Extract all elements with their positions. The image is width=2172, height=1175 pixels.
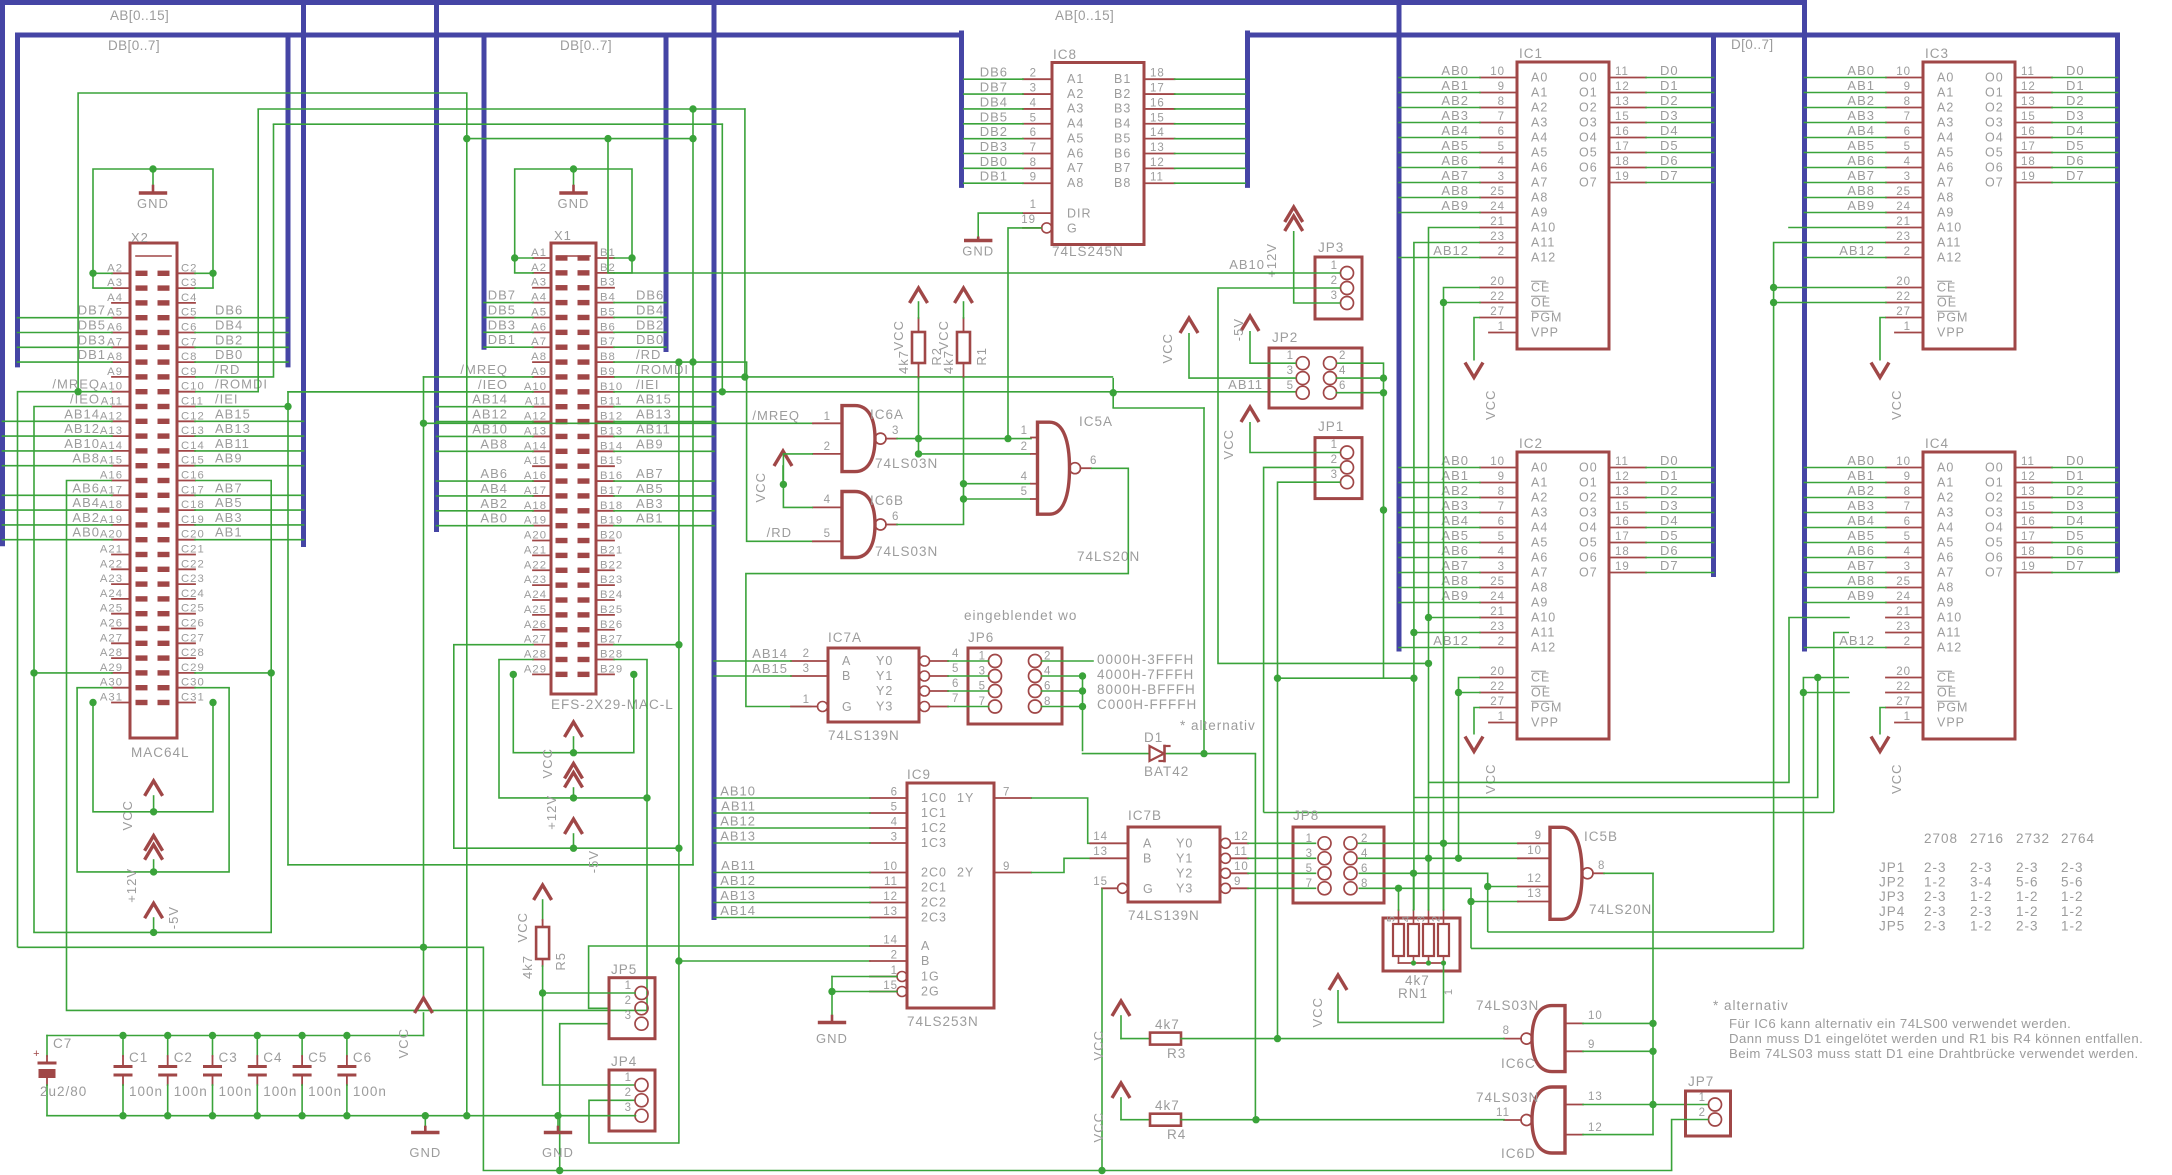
junction Y2-RN1 [1410, 870, 1417, 877]
svg-text:X2: X2 [131, 230, 149, 245]
svg-text:OE: OE [1531, 686, 1551, 700]
svg-text:3: 3 [803, 663, 810, 675]
svg-text:C4: C4 [263, 1050, 282, 1065]
RN1 top stems [1398, 888, 1400, 910]
svg-text:24: 24 [1490, 201, 1505, 213]
svg-text:DB2: DB2 [215, 332, 243, 347]
svg-text:A: A [921, 939, 930, 953]
svg-text:3: 3 [1331, 290, 1338, 302]
svg-text:23: 23 [1490, 621, 1505, 633]
wire H124 /RD-X2 [274, 123, 723, 125]
svg-text:1C0: 1C0 [921, 791, 947, 805]
wire X2 C16 vertical [195, 481, 271, 933]
svg-text:IC2: IC2 [1519, 436, 1543, 451]
svg-text:O2: O2 [1985, 491, 2004, 505]
svg-text:25: 25 [1896, 576, 1911, 588]
junction V693 RD-X1 [689, 358, 696, 365]
svg-text:D0: D0 [1660, 63, 1679, 78]
svg-text:2-3: 2-3 [2016, 918, 2039, 933]
svg-text:AB4: AB4 [1441, 123, 1469, 138]
svg-text:AB2: AB2 [1847, 93, 1875, 108]
svg-text:C25: C25 [181, 603, 205, 615]
svg-text:PGM: PGM [1937, 701, 1968, 715]
svg-text:7: 7 [1030, 142, 1037, 154]
svg-text:8: 8 [1904, 486, 1911, 498]
svg-text:23: 23 [1896, 231, 1911, 243]
svg-text:AB7: AB7 [1847, 558, 1875, 573]
resistor R2 [912, 332, 925, 363]
wire IC1 PGM to VCC [1474, 318, 1480, 361]
svg-text:17: 17 [2021, 531, 2036, 543]
IC4 AB wires from bus [1805, 467, 1887, 469]
svg-text:VPP: VPP [1531, 326, 1559, 340]
svg-text:C23: C23 [181, 573, 205, 585]
wires IC7A Y to JP6 [948, 660, 989, 662]
wire IC9 A from JP5.2 [589, 946, 870, 1008]
wire VCC to IC6A.2/IC6B.4 [782, 466, 784, 484]
svg-text:AB13: AB13 [720, 888, 756, 903]
svg-text:1: 1 [625, 1072, 632, 1084]
svg-text:JP2: JP2 [1272, 330, 1298, 345]
svg-text:A12: A12 [1937, 251, 1962, 265]
svg-text:B7: B7 [1114, 161, 1131, 175]
wire X1 /IEI (B10) = AB11 [614, 391, 1296, 393]
svg-text:Beim 74LS03 muss statt D1 eine: Beim 74LS03 muss statt D1 eine Drahtbrüc… [1729, 1046, 2139, 1061]
svg-text:15: 15 [1615, 111, 1630, 123]
svg-text:1: 1 [1331, 439, 1338, 451]
junction X2 +12V [150, 868, 157, 875]
wire Y2 link to IC3 [1488, 931, 1774, 933]
junction X1 B29 [630, 671, 637, 678]
svg-text:4: 4 [891, 817, 898, 829]
nand gate IC6A 74LS03N [842, 406, 875, 472]
wire Y0 row to IC5B.9 [1359, 842, 1519, 844]
IC9 body [907, 783, 994, 1008]
svg-text:D5: D5 [2066, 138, 2085, 153]
svg-text:15: 15 [1615, 501, 1630, 513]
svg-text:A20: A20 [524, 530, 547, 542]
junction JP5.3 rail [556, 1167, 563, 1174]
svg-text:O5: O5 [1985, 536, 2004, 550]
JP5 body [609, 978, 655, 1039]
svg-text:AB3: AB3 [636, 496, 664, 511]
wire IC9 1G 2G to GND [832, 976, 897, 978]
svg-text:D6: D6 [2066, 543, 2085, 558]
junction X1 VCC [570, 749, 577, 756]
svg-text:AB3: AB3 [1441, 498, 1469, 513]
svg-text:VPP: VPP [1531, 716, 1559, 730]
svg-text:A: A [1143, 837, 1152, 851]
IC2 AB wires from bus [1399, 467, 1480, 469]
svg-text:DB4: DB4 [215, 318, 243, 333]
svg-text:C000H-FFFFH: C000H-FFFFH [1097, 697, 1197, 712]
svg-text:/IEI: /IEI [215, 392, 239, 407]
ground GND above X1 [573, 169, 575, 186]
svg-text:2-3: 2-3 [2061, 860, 2084, 875]
svg-text:2-3: 2-3 [1924, 904, 1947, 919]
power VCC at JP1 [1241, 407, 1259, 422]
wire X1 /ROMDI (B9) [614, 376, 1113, 378]
capacitors C1-C6 100n [122, 1036, 124, 1057]
svg-text:B3: B3 [1114, 102, 1131, 116]
junction A10-IC2 [1425, 614, 1432, 621]
wire IC2 CE/OE select [1459, 678, 1481, 859]
svg-text:A11: A11 [1937, 626, 1961, 640]
svg-text:8: 8 [1498, 96, 1505, 108]
svg-text:A6: A6 [1937, 161, 1954, 175]
svg-text:D3: D3 [2066, 108, 2085, 123]
wire H93 [78, 93, 467, 1116]
power VCC R4 [1112, 1083, 1130, 1098]
svg-text:16: 16 [1150, 97, 1165, 109]
junction X1 GND top [570, 165, 577, 172]
svg-text:AB5: AB5 [1847, 138, 1875, 153]
wire X2 /IEI (C11) to X1 /IEO [195, 392, 533, 407]
svg-text:O5: O5 [1579, 536, 1598, 550]
svg-text:5: 5 [952, 663, 959, 675]
svg-text:1-2: 1-2 [2061, 918, 2084, 933]
connector X2 body [130, 243, 177, 738]
wire X2 -5V loop [34, 931, 271, 933]
wire X2 +12V loop [77, 688, 229, 872]
svg-text:2: 2 [1904, 636, 1911, 648]
svg-text:1: 1 [1030, 199, 1037, 211]
power VCC R3 [1112, 1001, 1130, 1016]
svg-text:11: 11 [2021, 66, 2035, 78]
svg-text:B23: B23 [600, 574, 623, 586]
svg-text:A3: A3 [1531, 116, 1548, 130]
junction X1 B27 chain [675, 641, 682, 648]
svg-text:PGM: PGM [1531, 311, 1562, 325]
junction Y3-RN1 [1395, 885, 1402, 892]
wire AB14 to IC7A [714, 660, 791, 662]
svg-text:D1: D1 [1144, 730, 1163, 745]
IC8 B-side D wires [1175, 78, 1245, 80]
svg-text:C1: C1 [129, 1050, 148, 1065]
svg-text:IC6B: IC6B [870, 493, 904, 508]
svg-text:2-3: 2-3 [1970, 860, 1993, 875]
svg-text:A27: A27 [524, 634, 547, 646]
power VCC at JP2 [1180, 318, 1198, 333]
svg-text:A10: A10 [1531, 221, 1556, 235]
wire X1 +12V loop [499, 660, 647, 798]
svg-text:5: 5 [1904, 531, 1911, 543]
svg-text:9: 9 [1498, 81, 1505, 93]
wire IC3 PGM to VCC [1880, 318, 1886, 361]
svg-text:A12: A12 [1531, 641, 1556, 655]
junction Y0-RN1 [1440, 840, 1447, 847]
svg-text:13: 13 [2021, 486, 2036, 498]
IC1 AB wires from bus [1399, 77, 1480, 79]
svg-text:1: 1 [1021, 425, 1028, 437]
svg-text:18: 18 [1150, 68, 1165, 80]
bus AB vertical (IC1/IC2) [1397, 3, 1402, 650]
svg-text:4: 4 [1339, 365, 1346, 377]
svg-text:A5: A5 [1937, 146, 1954, 160]
RN1 body [1383, 918, 1460, 971]
svg-text:AB6: AB6 [1847, 543, 1875, 558]
svg-text:AB1: AB1 [215, 525, 243, 540]
svg-text:24: 24 [1896, 201, 1911, 213]
svg-text:2-3: 2-3 [1924, 860, 1947, 875]
svg-text:O3: O3 [1985, 506, 2004, 520]
svg-text:AB8: AB8 [1441, 183, 1469, 198]
svg-text:9: 9 [1030, 172, 1037, 184]
power VCC below IC2 [1465, 737, 1483, 752]
wire IC1 CE/OE select [1444, 288, 1481, 911]
svg-text:IC7A: IC7A [828, 630, 862, 645]
svg-text:AB6: AB6 [72, 480, 100, 495]
svg-text:CE: CE [1531, 671, 1550, 685]
svg-text:2u2/80: 2u2/80 [40, 1084, 87, 1099]
svg-text:5: 5 [824, 528, 831, 540]
svg-text:11: 11 [2021, 456, 2035, 468]
svg-text:A9: A9 [1531, 206, 1548, 220]
svg-text:4k7: 4k7 [941, 350, 956, 374]
junction V722 IEI-X1 [719, 388, 726, 395]
svg-text:AB14: AB14 [472, 392, 508, 407]
svg-text:3: 3 [892, 425, 899, 437]
svg-text:20: 20 [1896, 276, 1911, 288]
svg-text:A23: A23 [524, 574, 547, 586]
svg-text:74LS03N: 74LS03N [1476, 998, 1539, 1013]
svg-text:1C2: 1C2 [921, 821, 947, 835]
wire X1 GND loop [515, 169, 632, 273]
svg-text:2: 2 [803, 648, 810, 660]
svg-text:X1: X1 [554, 228, 572, 243]
svg-text:O4: O4 [1579, 521, 1598, 535]
svg-text:16: 16 [1615, 516, 1630, 528]
svg-text:3: 3 [625, 1102, 632, 1114]
svg-text:19: 19 [1615, 561, 1630, 573]
svg-text:O0: O0 [1579, 461, 1598, 475]
junction H109 V693 [689, 105, 696, 112]
svg-text:DB7: DB7 [488, 288, 516, 303]
svg-text:23: 23 [1490, 231, 1505, 243]
svg-text:DB[0..7]: DB[0..7] [108, 38, 160, 53]
svg-text:AB0: AB0 [1441, 63, 1469, 78]
IC7A pin stubs [791, 660, 828, 662]
svg-text:1: 1 [891, 965, 898, 977]
svg-text:O4: O4 [1579, 131, 1598, 145]
junction VCC-IC6 [780, 481, 787, 488]
svg-text:C5: C5 [308, 1050, 327, 1065]
RN1 bottom dots [1411, 960, 1416, 965]
svg-text:22: 22 [1490, 291, 1505, 303]
svg-text:D3: D3 [1660, 498, 1679, 513]
svg-text:Y0: Y0 [1176, 836, 1193, 850]
svg-text:A29: A29 [524, 663, 547, 675]
svg-text:20: 20 [1490, 276, 1505, 288]
svg-text:A8: A8 [1937, 191, 1954, 205]
wire X1 VCC loop [513, 674, 634, 752]
svg-text:MAC64L: MAC64L [131, 745, 190, 760]
svg-text:/ROMDI: /ROMDI [215, 377, 268, 392]
svg-text:9: 9 [1535, 830, 1542, 842]
svg-text:10: 10 [1490, 66, 1505, 78]
svg-text:27: 27 [1490, 696, 1505, 708]
svg-text:6: 6 [1090, 455, 1097, 467]
svg-text:3-4: 3-4 [1970, 875, 1993, 890]
svg-text:A7: A7 [1531, 566, 1548, 580]
svg-text:AB9: AB9 [1441, 588, 1469, 603]
svg-text:2: 2 [1331, 275, 1338, 287]
junction IC3 OE [1770, 299, 1777, 306]
svg-text:A5: A5 [1531, 146, 1548, 160]
svg-text:100n: 100n [353, 1084, 387, 1099]
junction X1 +12V [570, 794, 577, 801]
svg-text:O3: O3 [1579, 506, 1598, 520]
svg-text:A10: A10 [1937, 611, 1962, 625]
svg-text:JP4: JP4 [611, 1054, 637, 1069]
svg-text:2: 2 [625, 1087, 632, 1099]
JP5 pin circles [635, 987, 648, 1000]
svg-text:DB6: DB6 [636, 288, 664, 303]
junction Y1-IC2sel [1455, 855, 1462, 862]
svg-text:A8: A8 [531, 351, 547, 363]
svg-text:74LS245N: 74LS245N [1052, 244, 1124, 259]
svg-text:8000H-BFFFH: 8000H-BFFFH [1097, 682, 1196, 697]
svg-text:A1: A1 [1937, 86, 1954, 100]
svg-text:O2: O2 [1985, 101, 2004, 115]
bus DB vertical (X2 C-side) [286, 35, 291, 365]
svg-text:B27: B27 [600, 634, 623, 646]
IC9 address input wires [714, 797, 870, 799]
svg-text:A15: A15 [524, 455, 547, 467]
IC3 AB wires from bus [1805, 77, 1887, 79]
svg-text:DB0: DB0 [636, 332, 664, 347]
junction IC5A pin4 [960, 480, 967, 487]
junction IC5A pin5 [960, 495, 967, 502]
svg-text:2C1: 2C1 [921, 881, 947, 895]
connector X1 pins A1-A29 / B1-B29 [533, 257, 551, 259]
wire rail 947 [18, 947, 484, 1170]
wire IC2 PGM to VCC [1474, 708, 1480, 735]
resistor R3 [1120, 1016, 1122, 1039]
svg-text:AB7: AB7 [215, 480, 243, 495]
svg-text:2: 2 [1904, 246, 1911, 258]
svg-text:A3: A3 [1067, 102, 1084, 116]
svg-text:2: 2 [1498, 246, 1505, 258]
junction IC1 OE [1440, 299, 1447, 306]
power VCC at IC6 inputs [774, 451, 792, 466]
ground GND above X2 [152, 169, 154, 186]
svg-text:AB3: AB3 [1441, 108, 1469, 123]
svg-text:A26: A26 [524, 619, 547, 631]
wire X2 VCC loop [93, 703, 213, 812]
svg-text:2: 2 [891, 950, 898, 962]
wire X2 /ROMDI (C10) [195, 109, 258, 392]
svg-text:A11: A11 [1531, 236, 1555, 250]
junction IC6D in13 [1649, 1101, 1656, 1108]
svg-text:JP7: JP7 [1688, 1074, 1714, 1089]
junction R4-D1 net [1252, 1116, 1259, 1123]
svg-text:2-3: 2-3 [1924, 918, 1947, 933]
svg-text:Dann muss D1 eingelötet werden: Dann muss D1 eingelötet werden und R1 bi… [1729, 1031, 2143, 1046]
junction IC4 OE [1800, 689, 1807, 696]
wire IC1 A11 channel [1414, 243, 1480, 911]
wire IC5B out [1604, 872, 1653, 874]
wire VCC to RN1 pin1 [1338, 990, 1444, 1022]
IC7B pin stubs [1091, 842, 1129, 844]
svg-text:AB2: AB2 [480, 496, 508, 511]
svg-text:24: 24 [1896, 591, 1911, 603]
svg-text:A25: A25 [100, 603, 123, 615]
svg-text:O6: O6 [1579, 161, 1598, 175]
svg-text:16: 16 [2021, 516, 2036, 528]
svg-text:VCC: VCC [120, 800, 135, 830]
svg-text:11: 11 [1234, 846, 1248, 858]
JP8 body [1293, 827, 1384, 903]
svg-text:Y1: Y1 [876, 669, 893, 683]
svg-text:A9: A9 [1937, 596, 1954, 610]
svg-text:5: 5 [1287, 380, 1294, 392]
svg-text:CE: CE [1937, 671, 1956, 685]
svg-text:4: 4 [1498, 546, 1505, 558]
svg-text:JP3: JP3 [1879, 889, 1905, 904]
svg-text:3: 3 [1030, 83, 1037, 95]
wire V693 [692, 109, 694, 865]
JP4 body [609, 1070, 655, 1131]
junction JP1.3 H678 [1274, 675, 1281, 682]
svg-text:D0: D0 [1660, 453, 1679, 468]
svg-text:-5V: -5V [1231, 318, 1246, 341]
junction IC6C in1 [1649, 1020, 1656, 1027]
svg-text:JP5: JP5 [611, 962, 637, 977]
svg-text:5: 5 [1021, 486, 1028, 498]
JP3 pin circles [1341, 267, 1354, 280]
junction V466 GND rail [463, 1112, 470, 1119]
svg-text:C31: C31 [181, 692, 205, 704]
svg-text:14: 14 [883, 935, 898, 947]
svg-text:AB8: AB8 [1847, 183, 1875, 198]
svg-text:1Y: 1Y [957, 791, 974, 805]
wire JP7.2 to rail [1672, 1120, 1709, 1171]
svg-text:D4: D4 [1660, 123, 1679, 138]
wire X1 -5V loop [454, 645, 679, 849]
svg-text:11: 11 [1615, 66, 1629, 78]
svg-text:A21: A21 [100, 544, 123, 556]
svg-text:100n: 100n [174, 1084, 208, 1099]
resistor R1 [957, 332, 970, 363]
svg-text:D6: D6 [1660, 153, 1679, 168]
svg-text:A4: A4 [1067, 117, 1084, 131]
junction X2 GND C2 [209, 270, 216, 277]
svg-text:C27: C27 [181, 632, 205, 644]
wire H678 link [1278, 677, 1414, 679]
power VCC below X1 [565, 722, 583, 737]
wire JP5.3 to rail [560, 1024, 609, 1171]
svg-text:DB1: DB1 [78, 347, 106, 362]
svg-text:AB1: AB1 [636, 511, 664, 526]
JP3 body [1315, 257, 1362, 319]
IC1 body [1517, 62, 1609, 349]
svg-text:A7: A7 [1937, 176, 1954, 190]
svg-text:2: 2 [1431, 915, 1443, 922]
svg-text:O1: O1 [1985, 476, 2004, 490]
svg-text:A21: A21 [524, 544, 547, 556]
svg-text:DB1: DB1 [488, 332, 516, 347]
svg-text:CE: CE [1937, 281, 1956, 295]
svg-text:2732: 2732 [2016, 831, 2050, 846]
bus AB vertical left (X2 A-side) [0, 3, 5, 544]
svg-text:VCC: VCC [396, 1028, 411, 1058]
svg-text:AB[0..15]: AB[0..15] [1055, 8, 1114, 23]
svg-text:5-6: 5-6 [2016, 875, 2039, 890]
junction JP2 channel [1380, 506, 1387, 513]
wire IC6A out [897, 438, 1031, 440]
svg-text:D2: D2 [1660, 93, 1679, 108]
